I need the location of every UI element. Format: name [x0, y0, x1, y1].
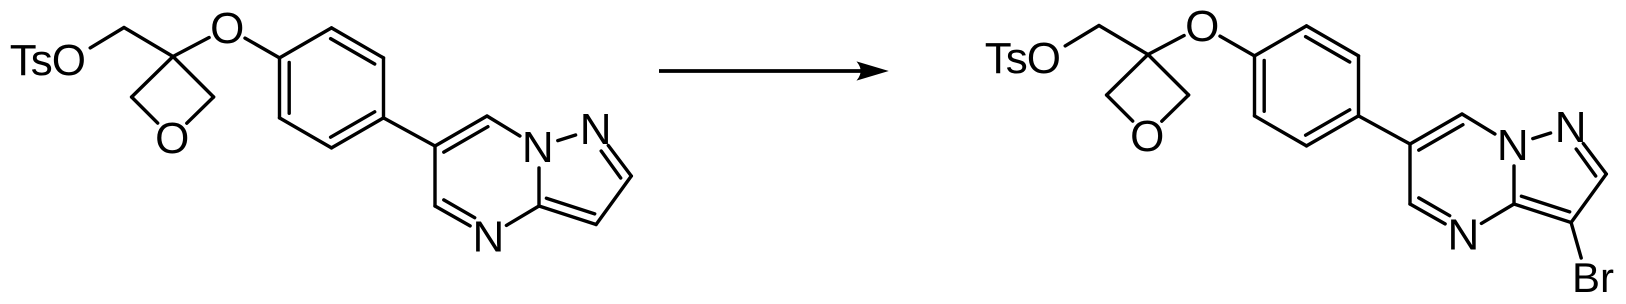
oxetane bond C2-O1 (reactant)	[132, 97, 158, 123]
pyrimidine bond C3a-N4 (reactant)	[506, 206, 539, 225]
svg-text:O: O	[1185, 2, 1219, 51]
oxetane bond C3-C2 (reactant)	[132, 57, 173, 98]
pyrimidine double-bond inner line N4=C5 (product)	[1419, 198, 1450, 216]
benzene bond C3-C4 (reactant)	[382, 58, 385, 118]
benzene double-bond inner line C4-C5 (product)	[1306, 110, 1350, 135]
oxetane bond C3-C4 (product)	[1148, 55, 1189, 96]
bond O(Ts)-CH2 (reactant)	[90, 28, 124, 48]
svg-text:N: N	[1497, 121, 1529, 170]
benzene bond C2-C3 (product)	[1307, 26, 1359, 56]
bond C4(phenyl)-C6(pyrimidine) (product)	[1359, 116, 1411, 144]
bond CH2-C3(oxetane) (product)	[1099, 26, 1148, 55]
svg-text:TsO: TsO	[985, 34, 1060, 83]
pyrimidine bond C6=C7 outer (product)	[1410, 114, 1462, 144]
benzene bond C1-C2 (reactant)	[280, 28, 332, 58]
benzene double-bond inner line C4-C5 (reactant)	[331, 112, 375, 137]
pyrimidine bond C3a-N4 (product)	[1481, 204, 1514, 223]
oxetane bond C2-O1 (product)	[1107, 95, 1133, 121]
svg-text:N: N	[1448, 210, 1480, 259]
pyrazole bond C2-C3 (product)	[1571, 174, 1606, 223]
benzene bond C1-C2 (product)	[1255, 26, 1307, 56]
pyrimidine bond C5-C6 (reactant)	[433, 146, 436, 206]
svg-text:N: N	[1555, 103, 1587, 152]
pyrazole bond C2-C3 (reactant)	[596, 176, 631, 225]
svg-text:O: O	[155, 114, 189, 163]
pyrimidine double-bond inner line C6=C7 (reactant)	[444, 127, 488, 152]
benzene bond C5-C6 (reactant)	[280, 118, 332, 148]
oxetane bond C3-C2 (product)	[1107, 55, 1148, 96]
bond C3-O(aryl) (reactant)	[173, 38, 209, 57]
svg-text:O: O	[1130, 112, 1164, 161]
oxetane bond C4-O1 (reactant)	[187, 97, 214, 123]
pyrazole bond N2=C2 outer (reactant)	[608, 146, 631, 177]
bond O(aryl)-C1(phenyl) (reactant)	[245, 38, 280, 58]
svg-text:TsO: TsO	[10, 36, 85, 85]
benzene double-bond inner line C6-C1 (product)	[1262, 61, 1265, 112]
benzene double-bond inner line C6-C1 (reactant)	[288, 63, 291, 114]
benzene bond C4-C5 (product)	[1307, 116, 1359, 146]
pyrimidine bond N4=C5 outer (product)	[1410, 204, 1445, 224]
benzene bond C6-C1 (reactant)	[278, 58, 281, 118]
benzene bond C5-C6 (product)	[1255, 116, 1307, 146]
pyrazole double-bond inner line N2=C2 (reactant)	[601, 151, 621, 178]
reaction arrow	[659, 69, 879, 73]
pyrazole bond N1-N2 (product)	[1533, 133, 1551, 139]
pyrimidine bond N1-C3a (product)	[1512, 166, 1515, 204]
oxetane bond C3-C4 (reactant)	[173, 57, 214, 98]
pyrazole double-bond inner line C3=C3a (product)	[1521, 196, 1569, 212]
bond C3-O(aryl) (product)	[1148, 36, 1184, 55]
pyrazole double-bond inner line N2=C2 (product)	[1576, 149, 1596, 176]
svg-text:N: N	[473, 212, 505, 261]
bond CH2-C3(oxetane) (reactant)	[124, 28, 173, 57]
benzene bond C3-C4 (product)	[1357, 56, 1360, 116]
bond C4(phenyl)-C6(pyrimidine) (reactant)	[384, 118, 436, 146]
pyrazole bond C3=C3a outer (reactant)	[539, 206, 596, 225]
pyrazole double-bond inner line C3=C3a (reactant)	[546, 198, 594, 214]
svg-text:N: N	[580, 105, 612, 154]
pyrimidine double-bond inner line C6=C7 (product)	[1419, 125, 1463, 150]
pyrimidine bond C7-N1 (reactant)	[487, 116, 520, 136]
bond O(Ts)-CH2 (product)	[1065, 26, 1099, 46]
pyrimidine bond N4=C5 outer (reactant)	[435, 206, 470, 226]
pyrazole bond N2=C2 outer (product)	[1583, 144, 1606, 175]
pyrimidine bond C5-C6 (product)	[1408, 144, 1411, 204]
svg-text:N: N	[522, 123, 554, 172]
benzene double-bond inner line C2-C3 (product)	[1306, 37, 1350, 62]
svg-text:Br: Br	[1572, 254, 1614, 301]
benzene bond C6-C1 (product)	[1253, 56, 1256, 116]
benzene bond C4-C5 (reactant)	[332, 118, 384, 148]
pyrimidine bond C6=C7 outer (reactant)	[435, 116, 487, 146]
pyrimidine bond N1-C3a (reactant)	[537, 168, 540, 206]
pyrazole bond N1-N2 (reactant)	[558, 135, 576, 141]
benzene double-bond inner line C2-C3 (reactant)	[331, 39, 375, 64]
svg-text:O: O	[210, 4, 244, 53]
bond O(aryl)-C1(phenyl) (product)	[1220, 36, 1255, 56]
pyrimidine bond C7-N1 (product)	[1462, 114, 1495, 134]
pyrazole bond C3=C3a outer (product)	[1514, 204, 1571, 223]
bond C3-Br (product)	[1571, 223, 1581, 259]
benzene bond C2-C3 (reactant)	[332, 28, 384, 58]
pyrimidine double-bond inner line N4=C5 (reactant)	[444, 200, 475, 218]
oxetane bond C4-O1 (product)	[1162, 95, 1189, 121]
